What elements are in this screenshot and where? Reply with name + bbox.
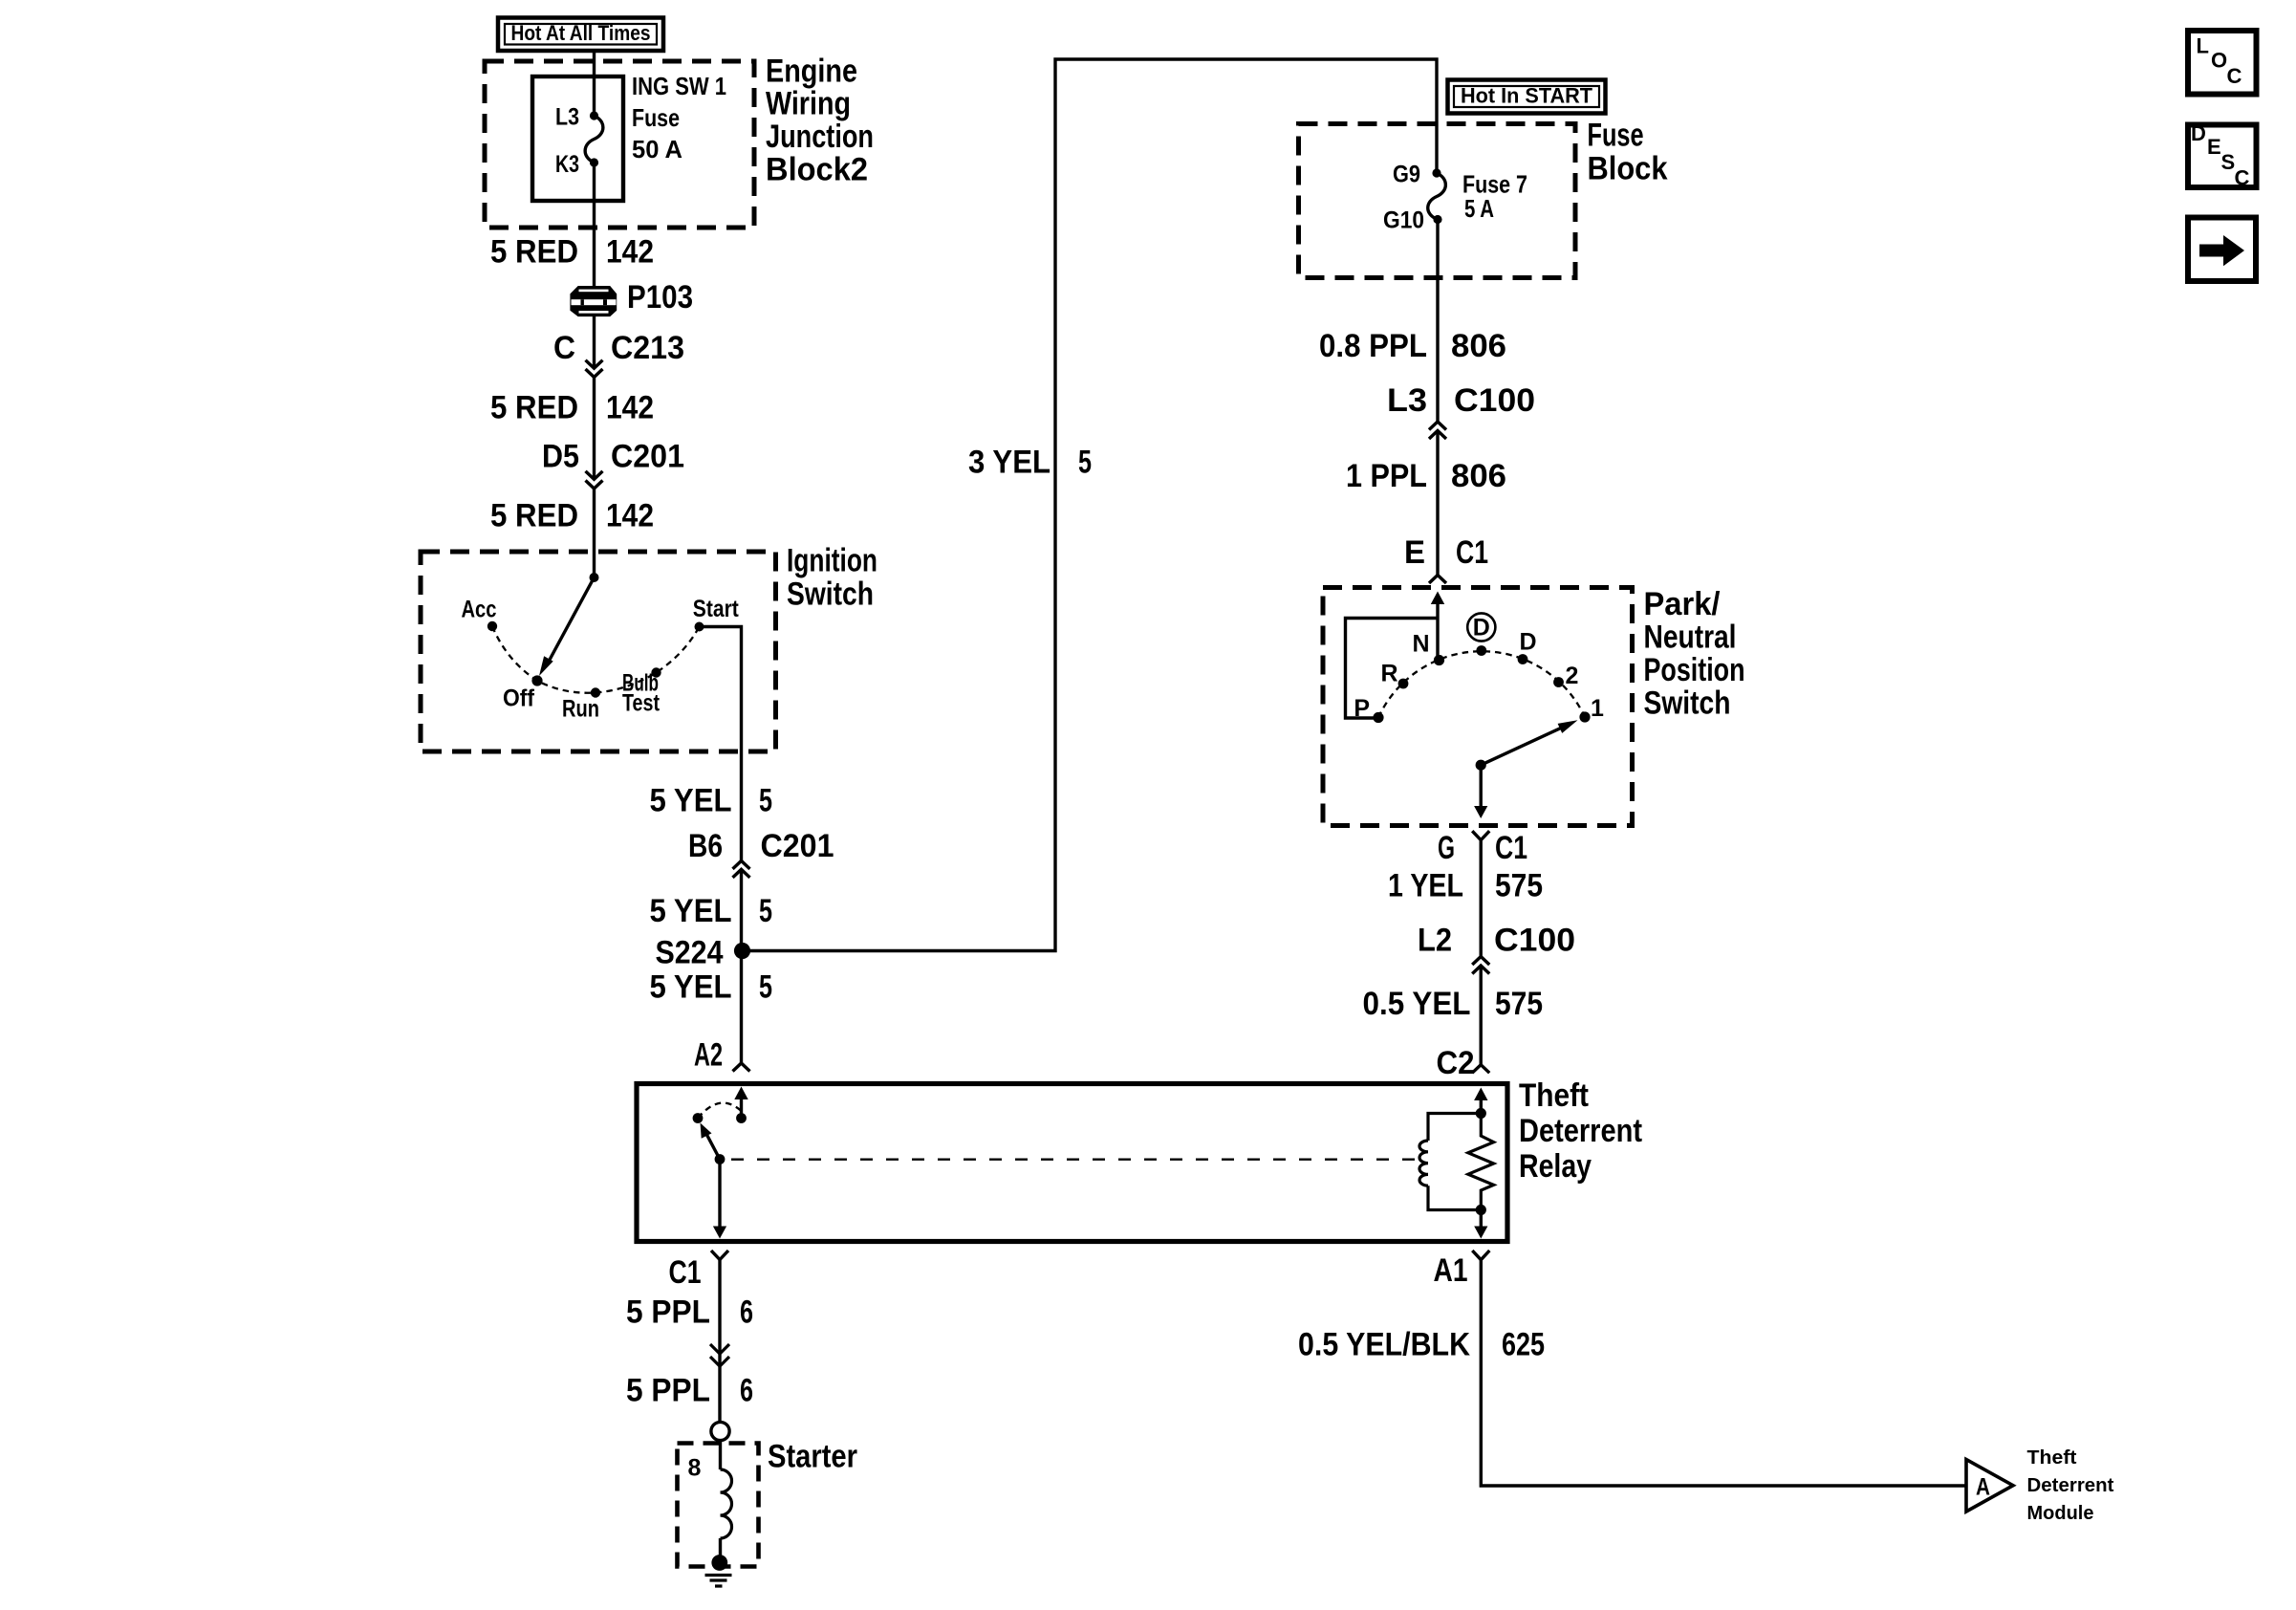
svg-text:5 YEL: 5 YEL (650, 969, 732, 1006)
wire: S224 branch right, up and over into fuse block (3 YEL 5) (742, 59, 1438, 951)
svg-text:Start: Start (693, 596, 740, 622)
svg-text:G9: G9 (1393, 162, 1420, 188)
wire: Start contact right and down through S224 to relay A2 (700, 627, 742, 1064)
svg-text:D: D (1473, 615, 1490, 642)
svg-text:D: D (1519, 629, 1536, 656)
svg-text:Starter: Starter (768, 1439, 857, 1475)
contact Start (695, 622, 704, 632)
relay output arrow down (A1) (1474, 1227, 1487, 1239)
svg-text:ING SW 1: ING SW 1 (632, 72, 726, 100)
relay output arrow down (C1) (713, 1227, 726, 1239)
svg-text:C: C (553, 330, 575, 366)
svg-text:D5: D5 (542, 439, 579, 475)
svg-text:Hot At All Times: Hot At All Times (511, 21, 651, 45)
svg-text:0.5 YEL/BLK: 0.5 YEL/BLK (1298, 1327, 1470, 1363)
svg-text:C2: C2 (1437, 1045, 1475, 1081)
wire label / connector B6 C201 (739, 860, 744, 869)
svg-text:Theft: Theft (1519, 1077, 1589, 1114)
relay A2 entry arrow (740, 1092, 743, 1119)
svg-text:L: L (2197, 34, 2209, 58)
svg-text:A: A (1976, 1474, 1990, 1501)
svg-text:Module: Module (2027, 1503, 2094, 1524)
output arrow down (1474, 806, 1487, 818)
svg-text:5: 5 (759, 969, 772, 1006)
svg-text:625: 625 (1502, 1327, 1545, 1363)
splice S224 (734, 943, 750, 959)
wire: battery feed into junction block (593, 51, 596, 116)
svg-text:C: C (2235, 166, 2250, 190)
svg-text:0.8 PPL: 0.8 PPL (1319, 328, 1427, 364)
dashed gear position arc (1378, 651, 1585, 717)
wire: inside park/neutral box down to N contact (1436, 597, 1439, 661)
contact Bulb Test (651, 667, 661, 677)
svg-text:Run: Run (562, 696, 599, 723)
svg-text:Off: Off (503, 685, 535, 712)
ignition rotor arm with arrowhead to Off (550, 577, 595, 660)
svg-text:5: 5 (1078, 445, 1092, 481)
svg-text:S: S (2221, 150, 2236, 174)
svg-text:Fuse: Fuse (1588, 118, 1644, 154)
wire: G10 down through fuse block exit to park/neutral N contact (1436, 220, 1439, 576)
component box: Starter (dashed) (678, 1444, 759, 1567)
svg-text:1 PPL: 1 PPL (1346, 458, 1427, 494)
svg-text:Ignition: Ignition (787, 543, 877, 579)
ground at starter (711, 1555, 727, 1571)
svg-text:5 PPL: 5 PPL (626, 1373, 710, 1409)
wire label / connector L2 C100 (1479, 957, 1484, 967)
contact Acc (487, 621, 497, 631)
relay coil bottom junction (1476, 1205, 1486, 1215)
starter terminal ring (711, 1422, 729, 1440)
wire: below relay A1 connector down and right to module (1481, 1260, 1966, 1486)
contact R (1398, 679, 1409, 689)
svg-text:Relay: Relay (1519, 1148, 1592, 1185)
svg-text:Block: Block (1588, 151, 1668, 187)
svg-text:806: 806 (1451, 458, 1506, 494)
svg-text:N: N (1412, 631, 1429, 658)
svg-text:C201: C201 (611, 439, 684, 475)
svg-text:C100: C100 (1494, 923, 1575, 959)
svg-text:B6: B6 (688, 828, 723, 864)
svg-text:Deterrent: Deterrent (1519, 1113, 1642, 1149)
connector A1 below relay (1472, 1251, 1489, 1260)
fuse ING SW 1 50A element (590, 111, 598, 120)
wire: relay A1 output down and right to theft deterrent module (1480, 1210, 1483, 1232)
svg-text:R: R (1380, 661, 1397, 687)
svg-text:Junction: Junction (766, 119, 874, 155)
off-page connector triangle A to Theft Deterrent Module (1966, 1460, 2013, 1512)
wire: relay C1 output down to starter (718, 1160, 721, 1232)
wire label / connector C C213 (592, 368, 596, 377)
wire: below relay C1 connector down to starter ring (718, 1260, 721, 1424)
relay coil top junction (1476, 1108, 1486, 1119)
starter solenoid coil (719, 1441, 722, 1469)
relay arm pivot (715, 1154, 726, 1164)
svg-text:C201: C201 (761, 828, 834, 864)
wire: K3 to P103 to C213 to ignition switch (593, 163, 596, 577)
svg-text:575: 575 (1495, 868, 1543, 904)
svg-text:Neutral: Neutral (1644, 620, 1737, 656)
svg-text:Park/: Park/ (1644, 586, 1722, 622)
dashed link arc between contacts (698, 1103, 742, 1119)
svg-text:2: 2 (1566, 663, 1579, 689)
contact Run (591, 687, 600, 697)
connector C1 below relay (711, 1251, 728, 1260)
svg-text:5 PPL: 5 PPL (626, 1295, 710, 1331)
svg-text:5 YEL: 5 YEL (650, 893, 732, 929)
tag: Hot In START (1448, 80, 1606, 114)
contact Off (531, 675, 542, 685)
relay coil branch (1428, 1114, 1481, 1142)
svg-text:5 YEL: 5 YEL (650, 783, 732, 819)
svg-text:6: 6 (740, 1295, 753, 1331)
svg-text:Wiring: Wiring (766, 86, 851, 122)
svg-text:50 A: 50 A (632, 135, 682, 163)
svg-text:L3: L3 (555, 104, 579, 131)
wire label / connector D5 C201 (592, 479, 596, 489)
svg-text:806: 806 (1451, 328, 1506, 364)
relay switch arm with arrowhead (706, 1134, 720, 1160)
svg-text:C100: C100 (1454, 382, 1535, 419)
svg-text:P: P (1354, 695, 1370, 722)
svg-text:5 A: 5 A (1464, 194, 1494, 223)
relay resistor (parallel with coil) (1468, 1114, 1494, 1210)
svg-text:C1: C1 (1495, 830, 1527, 866)
wire: below park/neutral connector down to relay C2 chevron (1479, 840, 1482, 1065)
svg-text:Block2: Block2 (766, 152, 868, 188)
selector arm with arrowhead to 1 (1481, 727, 1564, 765)
button: DESC (2188, 125, 2257, 188)
svg-text:D: D (2191, 121, 2206, 145)
svg-text:L3: L3 (1387, 382, 1427, 419)
relay C2 entry arrow (1480, 1094, 1483, 1114)
svg-text:Deterrent: Deterrent (2027, 1475, 2114, 1496)
component box: Engine Wiring Junction Block2 (dashed) (485, 61, 754, 228)
svg-text:O: O (2211, 49, 2227, 73)
svg-text:K3: K3 (555, 151, 579, 178)
svg-text:142: 142 (606, 498, 654, 534)
svg-text:Theft: Theft (2027, 1447, 2077, 1469)
relay common contact (736, 1113, 747, 1123)
svg-text:A1: A1 (1434, 1252, 1468, 1289)
svg-text:C1: C1 (669, 1254, 702, 1291)
component box: Theft Deterrent Relay (637, 1084, 1507, 1242)
svg-text:Switch: Switch (787, 577, 874, 613)
relay NC contact (693, 1113, 704, 1123)
svg-text:Fuse: Fuse (632, 103, 680, 132)
selector pivot (1476, 760, 1486, 771)
tag: Hot At All Times (498, 18, 663, 52)
svg-text:C1: C1 (1456, 534, 1488, 571)
contact D (circled) (1476, 645, 1486, 656)
contact N (1434, 655, 1444, 665)
svg-text:8: 8 (688, 1455, 702, 1482)
svg-text:C213: C213 (611, 330, 684, 366)
svg-text:6: 6 (740, 1373, 753, 1409)
entry arrow at top (1431, 592, 1444, 605)
svg-text:A2: A2 (694, 1037, 723, 1074)
component box: Park/Neutral Position Switch (dashed) (1323, 588, 1633, 826)
svg-text:Switch: Switch (1644, 685, 1731, 722)
inline connector chevrons (710, 1344, 729, 1366)
wire: park/neutral pivot output down through G C1 to relay C2 (1479, 765, 1482, 813)
contact D (1518, 654, 1528, 664)
wire label / connector L3 C100 (1436, 422, 1440, 431)
connector G C1 below switch (1472, 831, 1489, 840)
contact P (1373, 712, 1383, 723)
svg-text:0.5 YEL: 0.5 YEL (1363, 986, 1471, 1022)
svg-text:Engine: Engine (766, 54, 857, 90)
svg-text:5 RED: 5 RED (490, 390, 578, 426)
component box: Fuse Block (dashed) (1299, 124, 1576, 278)
svg-text:3 YEL: 3 YEL (968, 445, 1051, 481)
svg-text:142: 142 (606, 390, 654, 426)
fuse holder rectangle (532, 76, 623, 201)
svg-text:E: E (1404, 534, 1425, 571)
contact 1 (1579, 711, 1590, 722)
svg-text:Position: Position (1644, 652, 1745, 688)
svg-text:5 RED: 5 RED (490, 498, 578, 534)
ignition switch feed contact (590, 573, 599, 582)
svg-text:C: C (2227, 64, 2242, 88)
button: next-page arrow (2188, 218, 2256, 282)
contact 2 (1553, 677, 1564, 687)
dashed position arc (492, 626, 700, 693)
svg-text:Hot In START: Hot In START (1461, 84, 1593, 108)
component box: Ignition Switch (dashed) (421, 552, 776, 751)
svg-text:1: 1 (1591, 695, 1604, 722)
fuse Fuse 7 5A element (1432, 168, 1440, 177)
svg-text:L2: L2 (1418, 923, 1452, 959)
svg-text:5: 5 (759, 783, 772, 819)
svg-text:5: 5 (759, 893, 772, 929)
svg-text:Acc: Acc (462, 597, 497, 623)
inline grommet P103 (570, 286, 617, 316)
svg-text:1 YEL: 1 YEL (1388, 868, 1463, 904)
svg-text:5 RED: 5 RED (490, 234, 578, 271)
svg-text:S224: S224 (656, 935, 724, 971)
svg-text:142: 142 (606, 234, 654, 271)
svg-text:E: E (2207, 135, 2221, 159)
svg-text:P103: P103 (627, 279, 693, 315)
dashed actuation line to coil (731, 1159, 1425, 1161)
svg-text:Test: Test (622, 690, 661, 717)
button: LOC (2188, 31, 2257, 95)
svg-text:G10: G10 (1383, 207, 1424, 234)
svg-text:575: 575 (1495, 986, 1543, 1022)
svg-text:G: G (1438, 830, 1455, 866)
solid bracket from feed to P contact (1346, 619, 1439, 719)
